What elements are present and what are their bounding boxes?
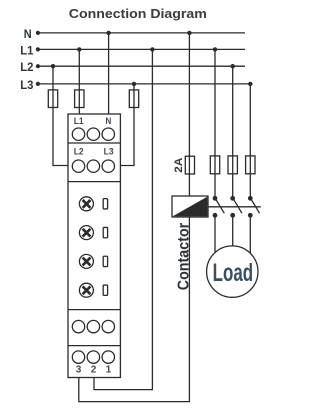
terminal mid b [87, 320, 99, 332]
wire bus N [38, 32, 245, 34]
terminal row2 b [87, 160, 99, 172]
svg-text:N: N [24, 27, 32, 41]
svg-text:L2: L2 [20, 60, 33, 74]
svg-text:1: 1 [106, 365, 112, 376]
indicator window 3 [103, 256, 107, 266]
wire L3 drop to relay right [120, 84, 134, 166]
lamp DS4 [79, 283, 93, 297]
wire L1 to contact 1 [214, 49, 216, 198]
fuse F5 (load L2) [228, 156, 237, 174]
relay divider 4 [68, 345, 120, 347]
lamp DS1 [79, 197, 93, 211]
wire N to 2A fuse and contactor coil [188, 33, 190, 196]
indicator window 1 [103, 199, 107, 209]
wire L3 to contact 3 [249, 84, 251, 198]
node N junction at x189 [187, 31, 191, 35]
fuse F2 (L1 phase) [75, 90, 84, 108]
svg-text:L1: L1 [20, 43, 33, 57]
lamp DS2 [79, 226, 93, 240]
node L3 start [36, 82, 40, 86]
terminal mid c [102, 320, 114, 332]
contact K1-2 [230, 196, 242, 218]
terminal row1 c [102, 128, 114, 140]
wire L1 drop to relay top [78, 49, 80, 114]
indicator window 2 [103, 227, 107, 237]
svg-text:L3: L3 [20, 78, 33, 92]
contactor coil K1 [172, 196, 208, 217]
node L3 drop junction [132, 82, 136, 86]
contact K1-1 [213, 196, 225, 218]
relay U1 outline [68, 114, 120, 378]
wire contact 1 to load [214, 215, 216, 254]
relay divider 2 [68, 181, 120, 183]
contact K1-3 [248, 196, 260, 218]
fuse F3 (L3 phase) [129, 90, 138, 108]
wire N drop to relay top [108, 33, 110, 114]
svg-text:3: 3 [76, 365, 82, 376]
terminal 3 [72, 351, 84, 363]
terminal mid a [72, 320, 84, 332]
node L2 start [36, 64, 40, 68]
indicator window 4 [103, 285, 107, 295]
svg-text:Contactor: Contactor [175, 223, 192, 291]
fuse 2A [185, 156, 194, 174]
node L2 contact junction [231, 64, 235, 68]
wire bus L2 [38, 65, 245, 67]
wire L1 to terminal 2 [94, 49, 152, 389]
fuse F1 (L2 phase) [48, 90, 57, 108]
node L1 contact junction [213, 47, 217, 51]
node L2 drop junction [51, 64, 55, 68]
wire contact 3 to load [249, 215, 251, 254]
relay divider 1 [68, 142, 120, 144]
svg-text:Load: Load [213, 259, 254, 287]
terminal 2 [87, 351, 99, 363]
load M [207, 246, 258, 297]
terminal row1 a [72, 128, 84, 140]
node L1 drop junction [77, 47, 81, 51]
svg-text:Connection Diagram: Connection Diagram [69, 6, 207, 21]
svg-text:2: 2 [91, 365, 97, 376]
lamp DS3 [79, 254, 93, 268]
fuse F4 (load L1) [210, 156, 219, 174]
wire bus L1 [38, 48, 245, 50]
wire contact 2 to load [232, 215, 234, 247]
wire contactor coil to terminal 3 [79, 217, 190, 402]
fuse F6 (load L3) [246, 156, 255, 174]
node L1 junction at x152 [150, 47, 154, 51]
terminal 1 [102, 351, 114, 363]
terminal row2 a [72, 160, 84, 172]
terminal row1 b [87, 128, 99, 140]
node N drop junction [106, 31, 110, 35]
relay divider 3 [68, 309, 120, 311]
svg-text:L2: L2 [74, 146, 84, 157]
wire L2 to contact 2 [232, 66, 234, 198]
svg-text:L1: L1 [74, 116, 84, 127]
node L1 start [36, 47, 40, 51]
contactor linkage [208, 206, 261, 208]
terminal row2 c [102, 160, 114, 172]
node N start [36, 31, 40, 35]
node L3 contact junction [248, 82, 252, 86]
svg-text:N: N [106, 116, 112, 127]
svg-text:2A: 2A [173, 157, 185, 172]
wire L2 drop to relay left [53, 66, 68, 165]
svg-text:L3: L3 [104, 146, 114, 157]
wire bus L3 [38, 83, 253, 85]
